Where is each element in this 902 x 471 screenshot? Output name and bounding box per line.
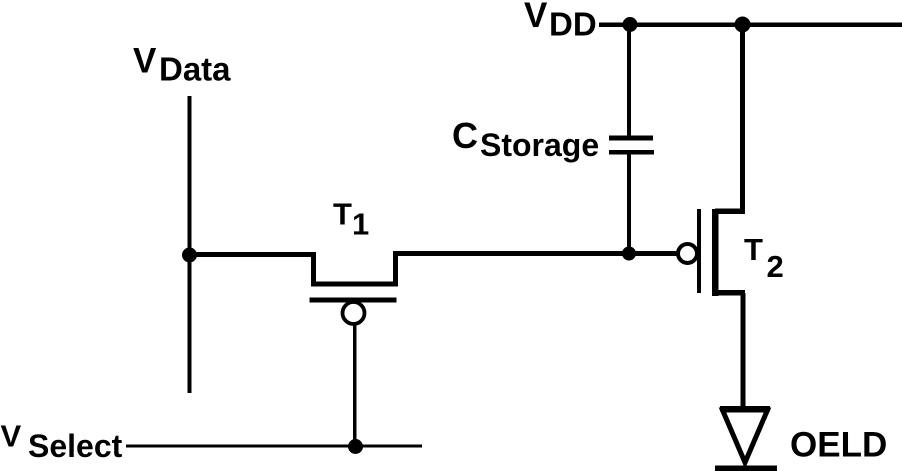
svg-text:T: T (744, 232, 763, 267)
wire T2 source vertical (741, 293, 746, 406)
junction V_Data / T1 source (182, 248, 197, 263)
net label V_DD (524, 0, 597, 43)
transistor T2 (678, 209, 745, 297)
svg-text:DD: DD (549, 6, 597, 43)
svg-text:2: 2 (767, 249, 784, 284)
transistor T1 (310, 252, 399, 324)
net label V_Select (1, 419, 123, 465)
net label V_Data (133, 42, 231, 88)
junction V_Select / T1 gate (348, 439, 363, 454)
junction storage node (622, 247, 636, 261)
wire C_Storage upper lead (627, 25, 631, 136)
wire VDD top rail (599, 23, 902, 28)
junction VDD / C_Storage (623, 17, 638, 32)
wire T2 drain vertical (740, 25, 745, 214)
wire T1 gate lead (353, 325, 357, 446)
value label C_Storage (452, 115, 599, 163)
svg-text:V: V (1, 419, 22, 454)
svg-text:Storage: Storage (480, 127, 599, 163)
capacitor C_Storage (609, 136, 654, 155)
diode OELD (715, 406, 777, 471)
wire V_Data vertical line (188, 96, 192, 393)
svg-text:V: V (524, 0, 548, 35)
svg-text:OELD: OELD (790, 426, 887, 465)
junction VDD / T2 drain (735, 17, 751, 33)
svg-text:T: T (333, 197, 352, 232)
svg-text:V: V (133, 42, 157, 81)
svg-text:1: 1 (352, 207, 369, 242)
wire T1 drain to T2 gate (393, 251, 679, 256)
svg-text:Data: Data (159, 51, 231, 88)
svg-text:Select: Select (28, 428, 123, 464)
wire C_Storage lower lead (627, 154, 631, 255)
label T1 (333, 197, 369, 242)
wire V_Select line (126, 445, 422, 448)
wire T1 source (189, 252, 315, 257)
label T2 (744, 232, 784, 284)
svg-text:C: C (452, 115, 478, 156)
